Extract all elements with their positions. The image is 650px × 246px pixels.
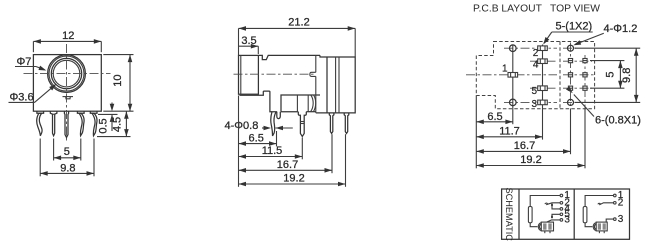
svg-text:3: 3 [618, 214, 624, 225]
svg-text:16.7: 16.7 [514, 140, 535, 152]
svg-text:12: 12 [62, 30, 74, 42]
svg-text:1: 1 [502, 63, 508, 74]
svg-text:5: 5 [64, 146, 70, 158]
svg-text:4-Φ1.2: 4-Φ1.2 [604, 23, 638, 35]
svg-text:P.C.B LAYOUT: P.C.B LAYOUT [473, 3, 543, 14]
svg-text:9.8: 9.8 [60, 162, 75, 174]
svg-text:10: 10 [112, 74, 124, 86]
svg-text:3: 3 [564, 215, 570, 226]
svg-text:6.5: 6.5 [249, 132, 264, 144]
svg-text:19.2: 19.2 [283, 172, 304, 184]
svg-text:16.7: 16.7 [277, 159, 298, 171]
svg-text:Φ3.6: Φ3.6 [10, 92, 34, 104]
svg-text:4: 4 [533, 60, 539, 71]
svg-text:4.5: 4.5 [112, 117, 124, 132]
svg-text:5: 5 [532, 86, 538, 97]
svg-text:19.2: 19.2 [520, 154, 541, 166]
svg-text:6-(0.8X1): 6-(0.8X1) [595, 114, 641, 126]
svg-text:6.5: 6.5 [487, 111, 502, 123]
svg-text:2: 2 [533, 48, 539, 59]
svg-text:11.7: 11.7 [499, 125, 520, 137]
svg-text:2: 2 [618, 197, 624, 208]
svg-text:TOP VIEW: TOP VIEW [550, 3, 600, 14]
svg-text:21.2: 21.2 [288, 17, 309, 29]
svg-text:0.5: 0.5 [97, 118, 109, 133]
svg-text:9.8: 9.8 [621, 68, 633, 83]
svg-text:SCHEMATIC: SCHEMATIC [504, 187, 514, 241]
svg-text:3: 3 [532, 99, 538, 110]
svg-text:5-(1X2): 5-(1X2) [556, 21, 593, 33]
svg-text:11.5: 11.5 [262, 145, 283, 157]
svg-text:5: 5 [605, 71, 617, 77]
svg-text:4-Φ0.8: 4-Φ0.8 [225, 120, 259, 132]
